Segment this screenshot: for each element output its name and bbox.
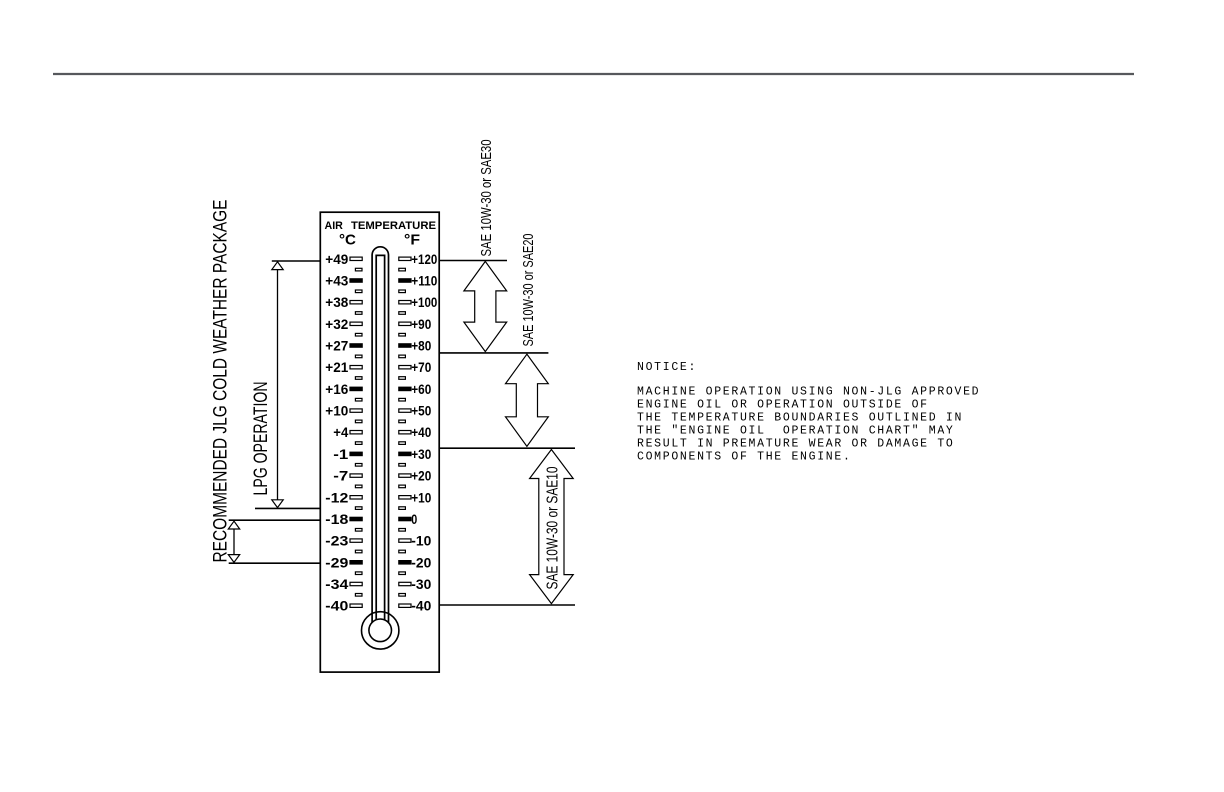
svg-text:-10: -10 [411, 533, 431, 549]
svg-text:+120: +120 [411, 251, 437, 267]
svg-text:+4: +4 [333, 424, 348, 440]
thermometer bulb inner circle [369, 619, 392, 642]
svg-text:+80: +80 [411, 338, 431, 354]
svg-text:THE TEMPERATURE BOUNDARIES OUT: THE TEMPERATURE BOUNDARIES OUTLINED IN [637, 411, 963, 424]
SAE10 range block arrow (+30F to -40F) [530, 450, 574, 604]
top horizontal rule [53, 73, 1134, 75]
+30F level line (right) [440, 447, 575, 449]
svg-text:-34: -34 [325, 576, 348, 592]
+80F level line (right) [440, 352, 549, 354]
NOTICE heading [637, 361, 980, 463]
svg-text:LPG OPERATION: LPG OPERATION [250, 382, 272, 496]
svg-text:RECOMMENDED JLG COLD WEATHER P: RECOMMENDED JLG COLD WEATHER PACKAGE [210, 200, 232, 563]
SAE30 range block arrow (+120F to +80F) [464, 261, 507, 351]
svg-text:NOTICE:: NOTICE: [637, 361, 697, 374]
svg-text:+32: +32 [325, 316, 348, 332]
svg-text:THE "ENGINE OIL OPERATION CHA: THE "ENGINE OIL OPERATION CHART" MAY [637, 424, 955, 437]
svg-text:+10: +10 [411, 489, 431, 505]
-40F level line (right) [440, 604, 575, 606]
svg-text:SAE 10W-30 or SAE30: SAE 10W-30 or SAE30 [478, 140, 495, 257]
LPG operation range arrow (thin double-headed) [277, 270, 279, 500]
svg-text:-18: -18 [325, 511, 348, 527]
svg-text:°C: °C [339, 232, 356, 249]
-18C level line [229, 519, 321, 521]
svg-text:+20: +20 [411, 468, 431, 484]
svg-text:+110: +110 [411, 273, 437, 289]
svg-text:+30: +30 [411, 446, 431, 462]
svg-text:ENGINE OIL OR OPERATION OUTSID: ENGINE OIL OR OPERATION OUTSIDE OF [637, 398, 929, 411]
thermometer outline box [320, 212, 439, 672]
svg-text:-7: -7 [333, 468, 348, 484]
svg-text:MACHINE OPERATION USING NON-JL: MACHINE OPERATION USING NON-JLG APPROVED [637, 385, 980, 398]
svg-text:-12: -12 [325, 489, 348, 505]
svg-text:+70: +70 [411, 359, 431, 375]
SAE20 range block arrow (+80F to +30F) [506, 354, 549, 446]
svg-text:-30: -30 [411, 576, 431, 592]
svg-text:+90: +90 [411, 316, 431, 332]
svg-text:-29: -29 [325, 554, 348, 570]
svg-text:RESULT IN PREMATURE WEAR OR DA: RESULT IN PREMATURE WEAR OR DAMAGE TO [637, 437, 955, 450]
svg-text:+10: +10 [325, 403, 348, 419]
svg-text:TEMPERATURE: TEMPERATURE [351, 220, 436, 232]
svg-text:+16: +16 [325, 381, 348, 397]
+120F level line (right) [440, 260, 507, 262]
svg-text:+40: +40 [411, 424, 431, 440]
svg-text:-20: -20 [411, 554, 431, 570]
svg-text:-23: -23 [325, 533, 348, 549]
svg-text:-1: -1 [333, 446, 348, 462]
svg-text:°F: °F [404, 232, 420, 249]
temperature scale rows: labels and tick marks [325, 251, 437, 614]
svg-text:+27: +27 [325, 338, 348, 354]
svg-text:0: 0 [411, 511, 417, 527]
svg-text:SAE 10W-30 or SAE20: SAE 10W-30 or SAE20 [520, 234, 537, 347]
svg-text:COMPONENTS OF THE ENGINE.: COMPONENTS OF THE ENGINE. [637, 450, 852, 463]
svg-text:+38: +38 [325, 294, 348, 310]
svg-text:+50: +50 [411, 403, 431, 419]
svg-text:SAE 10W-30 or SAE10: SAE 10W-30 or SAE10 [545, 466, 562, 589]
svg-text:+60: +60 [411, 381, 431, 397]
+49C / +120F level line (left) [272, 260, 321, 262]
thermometer inner tube [376, 255, 384, 625]
cold weather package range arrow (thin double-headed) [233, 529, 235, 555]
svg-text:+49: +49 [325, 251, 348, 267]
svg-text:+100: +100 [411, 294, 437, 310]
svg-text:-40: -40 [325, 598, 348, 614]
thermometer bulb outer circle [362, 612, 399, 649]
-29C level line [229, 562, 321, 564]
svg-text:+21: +21 [325, 359, 348, 375]
svg-text:AIR: AIR [325, 220, 343, 232]
thermometer outer tube with dome top [372, 247, 388, 625]
svg-text:+43: +43 [325, 273, 348, 289]
LPG lower boundary line [255, 507, 320, 509]
svg-text:-40: -40 [411, 598, 431, 614]
